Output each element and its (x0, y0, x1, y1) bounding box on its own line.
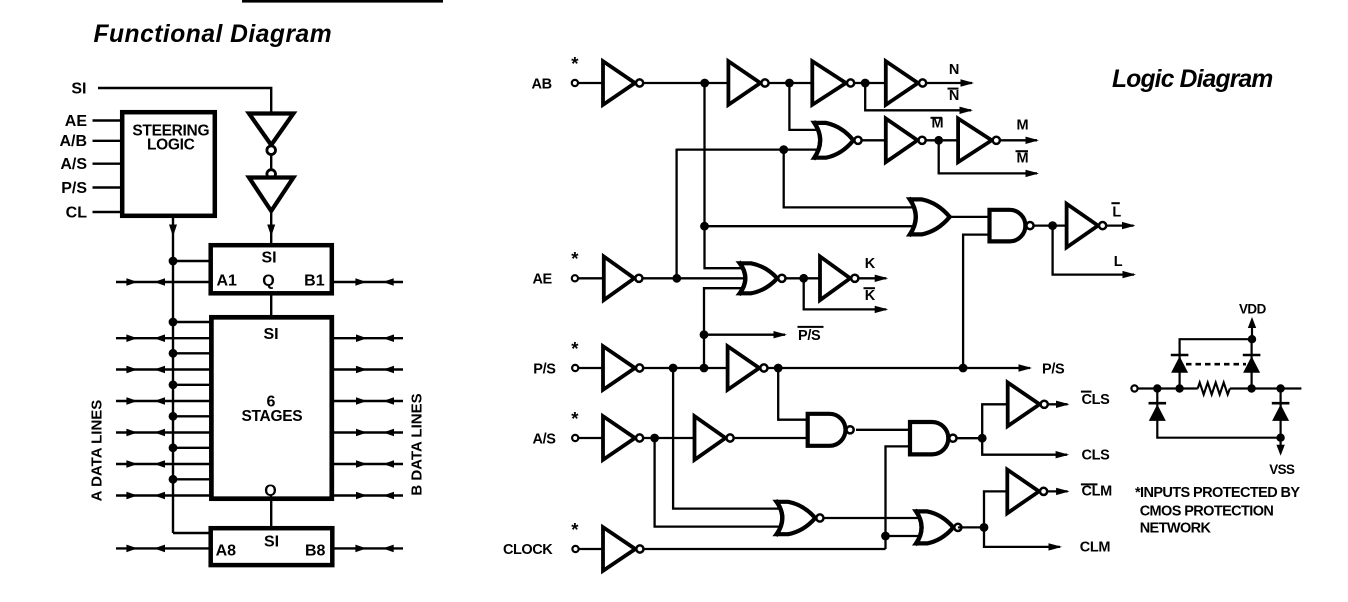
svg-text:CLS: CLS (1082, 392, 1111, 408)
svg-text:N: N (949, 88, 959, 104)
svg-text:P/S: P/S (798, 328, 821, 344)
wire P/S to inverter (578, 367, 604, 369)
node input-left (1153, 384, 1161, 392)
inverter U6 (886, 61, 918, 105)
diode D3 (from VSS) (1149, 402, 1167, 405)
diode D1 (to VDD) (1171, 354, 1189, 357)
svg-text:A DATA LINES: A DATA LINES (89, 400, 106, 502)
label PSbar (798, 326, 824, 328)
wire PS1 down to NOR G7 (673, 368, 779, 509)
node VSS corner (1276, 434, 1284, 442)
wire steering bus vertical (172, 216, 174, 533)
wire G1 to U7 (862, 139, 887, 141)
node AB2 (785, 79, 794, 88)
node CLM (980, 523, 989, 532)
page crop bar (242, 0, 443, 3)
wire steering bus to A8 (173, 532, 209, 534)
inverter U4 (728, 61, 760, 105)
svg-text:CLM: CLM (1082, 483, 1113, 499)
svg-text:SI: SI (71, 81, 86, 98)
wire A8 data line (116, 547, 209, 549)
node input-d1 (1175, 384, 1183, 392)
inverter U2 (SI buffer 2, input bubble) (267, 170, 276, 179)
wire G8 to CLM node (958, 526, 984, 528)
svg-text:VSS: VSS (1269, 462, 1295, 477)
svg-text:A1: A1 (217, 272, 238, 289)
svg-text:SI: SI (263, 326, 278, 343)
svg-text:Logic Diagram: Logic Diagram (1112, 66, 1272, 93)
wire AB to inverter (578, 82, 604, 84)
label CLSbar (1081, 391, 1092, 393)
wire CLS output (982, 438, 1067, 455)
wire G2 to NAND G3 (950, 216, 991, 218)
wire AE branch to OR G2 top input (784, 150, 916, 208)
svg-text:Functional Diagram: Functional Diagram (94, 21, 333, 48)
wire U2 to register SI input (270, 211, 272, 243)
svg-text:*: * (571, 519, 579, 540)
nand-gate G5 (CLS1) (808, 414, 846, 446)
terminal CLOCK (572, 546, 578, 552)
inverter U13 (728, 346, 760, 390)
inverter U17 (603, 527, 635, 571)
svg-text:L: L (1114, 254, 1123, 270)
terminal P/S (572, 365, 578, 371)
diode D4 (from VSS) (1272, 402, 1290, 405)
node CLS (978, 434, 987, 443)
wire AB1 branch to OR G2 bottom input (705, 83, 917, 226)
inverter U9 (1067, 204, 1098, 248)
label Lbar (1111, 202, 1119, 204)
node steering to stage 3 (169, 380, 178, 389)
wire AE line to NOR G1 input (677, 148, 821, 150)
wire A/S to inverter (578, 437, 604, 439)
nor-gate G1 (M) (814, 123, 853, 158)
nor-gate G7 (CLM1) (777, 502, 816, 534)
svg-text:A/S: A/S (60, 156, 87, 173)
wire K output (858, 277, 887, 279)
node AE to OR G2 (779, 145, 788, 154)
wire VSS stem (1279, 438, 1281, 452)
node PS3 (774, 364, 783, 373)
svg-text:N: N (949, 62, 959, 78)
inverter U14 (603, 416, 635, 460)
node PS2 (700, 364, 709, 373)
inverter U8 (958, 119, 992, 163)
node steering to stage 1 (169, 318, 178, 327)
label Mbar above node (931, 117, 943, 119)
wire U14 to U15 (643, 437, 696, 439)
svg-text:M: M (1017, 118, 1029, 134)
wire A/S stub (93, 162, 123, 164)
svg-text:M: M (932, 116, 944, 132)
wire B data line 4 (331, 431, 403, 433)
wire U15 to NAND G5 (733, 437, 808, 439)
wire AE stub (93, 119, 123, 121)
svg-text:*: * (571, 408, 579, 429)
dashed link D1-D2 (1186, 363, 1246, 366)
svg-text:AB: AB (532, 76, 552, 92)
svg-text:P/S: P/S (61, 180, 87, 197)
diode D2 (to VDD) (1243, 354, 1261, 357)
wire diode D2 stem (1250, 339, 1252, 388)
svg-text:NETWORK: NETWORK (1140, 521, 1212, 537)
wire G5 to NAND G6 (856, 429, 911, 431)
svg-text:CMOS PROTECTION: CMOS PROTECTION (1140, 503, 1274, 519)
node Kbar (799, 274, 808, 283)
terminal A/S (572, 435, 578, 441)
wire CLOCK tap to NOR G8 bottom input (886, 535, 919, 537)
wire AE to inverter (578, 277, 604, 279)
wire G4 to U11 (785, 277, 821, 279)
nor-gate G4 (K) (740, 263, 778, 293)
wire G6 to CLS node (957, 437, 982, 439)
wire PSbar tap arrow (704, 334, 785, 336)
wire AE1 up to M/L nets (675, 149, 677, 279)
wire A data line 3 (116, 400, 212, 402)
wire SI input (98, 88, 271, 114)
node AB1 to NOR K (700, 222, 709, 231)
svg-text:M: M (1017, 150, 1029, 166)
svg-text:A/B: A/B (59, 133, 87, 150)
terminal AE (572, 275, 578, 281)
steering logic box (122, 112, 215, 216)
wire B data line 3 (331, 400, 403, 402)
nor-gate G8 (CLM2) (916, 511, 953, 543)
svg-text:A/S: A/S (532, 431, 556, 447)
wire L output (1053, 226, 1134, 275)
svg-text:CLOCK: CLOCK (503, 542, 553, 558)
wire P/S stub (93, 186, 123, 188)
node steering to stage 4 (169, 412, 178, 421)
inverter U5 (812, 61, 846, 105)
wire U5 to U6 (854, 82, 887, 84)
wire Mbar output (939, 140, 1037, 173)
inverter U10 (604, 257, 635, 301)
node input-d2 (1247, 384, 1255, 392)
wire VDD rail (1180, 321, 1252, 389)
svg-text:LOGIC: LOGIC (147, 137, 195, 154)
wire PS3 down to NAND G5 (778, 368, 808, 420)
wire Q1 to 6-stages SI (270, 293, 272, 316)
node PSbar tap (700, 330, 709, 339)
svg-text:CLM: CLM (1080, 540, 1111, 556)
wire Q6 to A8 register SI (270, 499, 272, 527)
svg-text:P/S: P/S (533, 362, 556, 378)
wire U3 to U4 (643, 82, 730, 84)
inverter U15 (695, 416, 726, 460)
6 stages box (211, 317, 331, 498)
wire diode D4 stem (1279, 389, 1281, 438)
wire A data line 5 (116, 463, 212, 465)
wire A data line 1 (116, 337, 212, 339)
wire AB1 down to NOR K top input (705, 226, 749, 268)
svg-text:*INPUTS PROTECTED BY: *INPUTS PROTECTED BY (1135, 485, 1300, 501)
svg-text:*: * (571, 53, 579, 74)
wire Nbar output (865, 83, 971, 110)
wire AB2 to NOR G1 input (789, 83, 821, 130)
wire protection input rail (1138, 387, 1198, 389)
wire M output (1000, 139, 1038, 141)
svg-text:VDD: VDD (1239, 301, 1267, 316)
svg-text:A8: A8 (216, 543, 237, 560)
node L (1048, 221, 1057, 230)
wire A1 data line (116, 281, 210, 283)
svg-text:Q: Q (264, 482, 276, 499)
node AE1 (672, 274, 681, 283)
nand-gate G6 (CLS2) (910, 422, 948, 454)
register A8/B8 box (211, 528, 333, 565)
wire U12 to U13 (643, 367, 729, 369)
svg-text:K: K (865, 288, 876, 304)
inverter U11 (820, 257, 850, 301)
node AS1 (650, 434, 659, 443)
svg-text:STAGES: STAGES (242, 408, 303, 425)
svg-text:SI: SI (261, 250, 276, 267)
wire G3 to U9 (1034, 224, 1068, 226)
svg-text:B DATA LINES: B DATA LINES (409, 393, 426, 495)
node input-right (1276, 384, 1284, 392)
node PS1 (669, 364, 678, 373)
arrow VSS (1276, 445, 1284, 456)
svg-text:L: L (1112, 204, 1121, 220)
wire U4 to U5 (768, 82, 813, 84)
svg-text:Q: Q (262, 272, 274, 289)
wire CLS node up to U16 (982, 404, 1008, 438)
arrow VDD (1248, 317, 1256, 328)
inverter U7 (886, 119, 918, 163)
wire B data line 1 (331, 337, 403, 339)
nand-gate G3 (L) (990, 210, 1026, 242)
node PS4 (959, 364, 968, 373)
wire P/S to NAND G3 bottom input (963, 235, 990, 368)
svg-text:P/S: P/S (1042, 362, 1065, 378)
node AB3 (861, 79, 870, 88)
node steering to stage 5 (169, 443, 178, 452)
svg-text:*: * (571, 338, 579, 359)
wire A data line 4 (116, 431, 212, 433)
svg-text:CLS: CLS (1082, 448, 1111, 464)
wire B data line 2 (331, 368, 403, 370)
node CLOCK to NOR G8 (881, 532, 890, 541)
wire between U1 and U2 bubbles (270, 155, 272, 171)
label Mbar output (1016, 150, 1029, 152)
svg-text:B8: B8 (305, 543, 326, 560)
wire CLOCK up to NAND G6 bottom input (886, 446, 912, 549)
wire B8 data line (334, 547, 403, 549)
svg-text:AE: AE (532, 272, 552, 288)
wire CLM output (984, 527, 1060, 547)
svg-text:CL: CL (66, 204, 88, 221)
svg-text:K: K (865, 256, 876, 272)
inverter U16 (1008, 383, 1040, 427)
wire P/S-inv to NOR K bottom input (704, 288, 748, 368)
wire Lbar output (1106, 224, 1134, 226)
wire U7 to U8 (925, 139, 959, 141)
or-gate G2 (L) (910, 199, 950, 234)
wire VSS rail (1157, 389, 1280, 438)
label CLMbar (1081, 483, 1098, 485)
label Kbar (864, 287, 876, 289)
wire P/S output (767, 367, 1030, 369)
wire N output (926, 82, 973, 84)
wire A data line 6 (116, 494, 212, 496)
wire B1 data line (334, 281, 403, 283)
wire U10 to NOR K (642, 277, 748, 279)
wire B data line 5 (331, 463, 403, 465)
wire CLM node up to U18 (984, 491, 1008, 527)
label Nbar (948, 88, 959, 90)
inverter U12 (603, 346, 635, 390)
inverter U3 (603, 61, 635, 105)
svg-text:*: * (571, 248, 579, 269)
svg-text:AE: AE (65, 113, 88, 130)
node Mbar (934, 136, 943, 145)
wire CLOCK line (643, 548, 886, 550)
node AB1 (700, 79, 709, 88)
inverter U18 (1007, 470, 1039, 514)
terminal AB (572, 80, 578, 86)
terminal protection input (1131, 385, 1137, 391)
wire CLSbar output (1048, 403, 1068, 405)
wire G7 to NOR G8 (824, 517, 918, 519)
wire CLOCK to inverter (578, 548, 604, 550)
register A1/B1 box (211, 245, 332, 293)
resistor R1 (1198, 383, 1230, 395)
node steering to stage 2 (169, 349, 178, 358)
wire CLMbar output (1047, 490, 1068, 492)
node VDD corner (1248, 335, 1256, 343)
wire CL stub (93, 211, 123, 213)
wire Kbar output (804, 278, 887, 309)
inverter U1 (SI buffer, down-pointing) (249, 114, 293, 146)
wire B data line 6 (331, 494, 403, 496)
wire A/B stub (93, 140, 123, 142)
wire AS1 down to NOR G7 bottom input (655, 438, 779, 527)
svg-text:SI: SI (264, 533, 279, 550)
svg-text:B1: B1 (304, 272, 325, 289)
wire A data line 2 (116, 368, 212, 370)
node steering to A1 register (169, 257, 178, 266)
node steering to stage 6 (169, 475, 178, 484)
